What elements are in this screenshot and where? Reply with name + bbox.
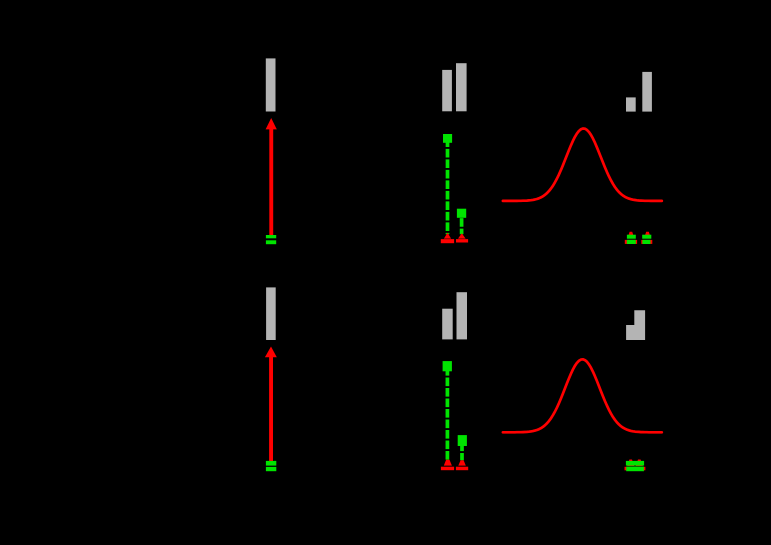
- node: bottom-right merged green tick 1: [626, 461, 644, 466]
- node: top-middle stem 1 small triangle: [444, 233, 451, 239]
- wire: top-left red arrow shaft: [269, 128, 273, 237]
- node: bottom-middle stem 2 red tick bar: [456, 467, 468, 471]
- node: bottom-right cluster 1 small triangle: [627, 460, 634, 467]
- node: top-middle stem 1 square marker: [443, 134, 452, 143]
- node: top-middle stem 2 small triangle: [458, 233, 466, 238]
- node: top-middle stem 1 red tick bar: [441, 239, 454, 243]
- bar: bottom-middle right gray bar: [457, 292, 468, 339]
- node: top-left green tick marker 2: [266, 240, 276, 244]
- node: top-middle stem 2 square marker: [457, 209, 466, 218]
- node: top-left green tick marker 1: [266, 235, 276, 238]
- node: bottom-left green tick marker 1: [266, 461, 276, 466]
- node: top-right cluster 1 green tick 1: [627, 235, 636, 239]
- node: bottom-right cluster 1 red tick bar: [625, 467, 637, 471]
- bar: top-middle left gray bar: [442, 70, 452, 111]
- wire: top-middle stem 1 dashed line: [446, 138, 450, 234]
- node: bottom-middle stem 1 small triangle: [444, 460, 452, 466]
- wire: top-middle stem 2 dashed line: [460, 218, 464, 234]
- bar: top-right left gray bar: [626, 97, 636, 111]
- node: top-right cluster 1 small triangle: [627, 232, 634, 239]
- wire: bottom-middle stem 2 dashed line: [460, 443, 464, 461]
- node: bottom-right merged green tick 2: [626, 467, 644, 472]
- wire: bottom-middle stem 1 dashed line: [446, 367, 450, 462]
- node: top-right cluster 2 small triangle: [644, 232, 651, 239]
- node: bottom-left red arrow head: [265, 347, 277, 358]
- node: top-right cluster 2 green tick 2: [642, 240, 650, 244]
- bar: bottom-right L-shaped gray bars (two adjacent bars): [626, 310, 645, 340]
- wire: bottom-left red arrow shaft: [269, 355, 273, 463]
- node: bottom-middle stem 2 square marker: [458, 435, 467, 446]
- bar: top-left prior bar: [266, 58, 276, 111]
- node: top-right cluster 1 red tick bar: [625, 240, 637, 244]
- node: bottom-right cluster 2 small triangle: [636, 460, 643, 467]
- node: top-right cluster 1 green tick 2: [627, 240, 636, 244]
- bar: bottom-middle left gray bar: [442, 309, 453, 340]
- node: bottom-right cluster 2 red tick bar: [633, 467, 645, 471]
- node: top-right cluster 2 red tick bar: [641, 240, 652, 244]
- node: bottom-middle stem 2 small triangle: [458, 460, 466, 465]
- curve: bottom gaussian: [503, 359, 662, 432]
- node: top-middle stem 2 red tick bar: [456, 239, 468, 242]
- node: bottom-middle stem 1 red tick bar: [441, 467, 454, 471]
- node: bottom-middle stem 1 square marker: [443, 361, 452, 371]
- bar: bottom-left prior bar: [266, 287, 276, 340]
- node: bottom-left green tick marker 2: [266, 467, 276, 471]
- curve: top gaussian: [503, 129, 662, 201]
- bar: top-right right gray bar: [642, 72, 652, 112]
- node: top-left red arrow head: [266, 118, 277, 129]
- node: top-right cluster 2 green tick 1: [642, 235, 651, 239]
- bar: top-middle right gray bar: [456, 63, 467, 111]
